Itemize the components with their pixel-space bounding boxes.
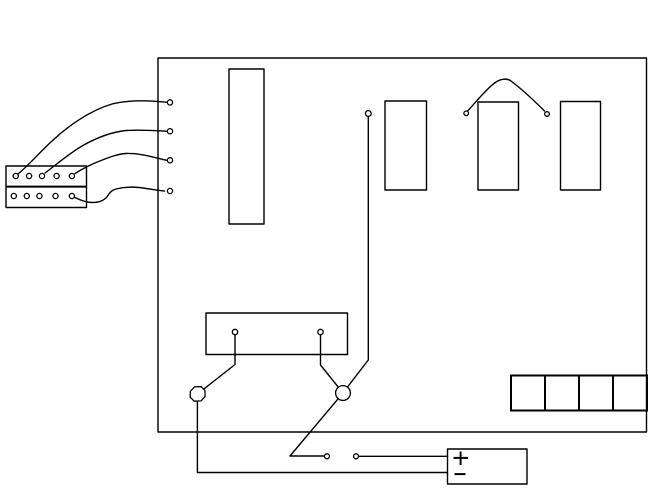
switch S1 contact 1 [325,454,330,459]
wire W3 (J1 pin5 to pad T3) [75,153,167,173]
battery BT1 minus mark [455,473,466,475]
board outline (PCB) [158,58,647,432]
relay K1 pin 2 [318,329,323,334]
wire W6 (pad T7 down to node B) [348,117,369,387]
wire W10 (switch to battery +) [359,455,448,457]
node A (hex standoff) [190,387,205,402]
pad T1 [167,100,172,105]
wire W7 (K1 pin1 to node A) [203,335,235,389]
jumper wire W5 (arc over U3) [468,79,545,111]
pad T4 [167,188,172,193]
component U3 [478,102,519,190]
component U1 (tall rectangle) [229,69,264,224]
wire W1 (J1 pin1 to pad T1) [18,101,167,174]
switch S1 lever [290,399,338,456]
pad T5 (left end of jumper) [464,111,469,116]
relay K1 pin 1 [232,329,237,334]
node B (junction) [336,386,351,401]
switch S1 contact 2 [354,454,359,459]
connector J1 body [6,166,87,208]
wire W8 (K1 pin2 to node B) [321,335,339,387]
terminal block X1 (4 squares) [511,376,647,411]
wire W9 (node A down and along bottom to battery) [197,401,447,472]
battery BT1 plus mark [454,452,469,466]
pad T7 (top of long wire) [365,111,371,117]
connector J1 pins row 2 [11,193,74,198]
pad T2 [167,129,172,134]
connector J1 pins row 1 [13,173,74,178]
wire W4 (J1 pin10 to pad T4) [75,187,165,202]
component U4 [561,102,601,191]
wire W2 (J1 pin3 to pad T2) [45,130,167,173]
relay K1 body [206,313,348,355]
pad T6 (right end of jumper) [545,112,550,117]
battery BT1 body [448,449,528,484]
pad T3 [167,158,172,163]
component U2 [385,101,427,190]
